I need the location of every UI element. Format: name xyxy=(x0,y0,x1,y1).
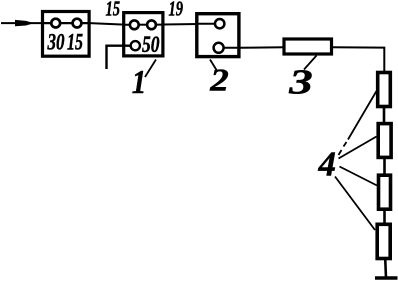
terminal circle xyxy=(130,20,139,29)
terminal circle xyxy=(214,43,224,53)
wire: block 2 to resistor 3 xyxy=(240,46,284,48)
box outline (block 2) xyxy=(197,14,239,57)
leader to resistor 4c xyxy=(340,167,378,186)
terminal circle xyxy=(51,19,60,28)
block 1 (contact box, value 50) xyxy=(124,13,163,58)
leader to resistor 4d xyxy=(335,177,375,231)
leader line to block 2 xyxy=(210,60,217,71)
terminal circle xyxy=(147,20,156,29)
svg-text:2: 2 xyxy=(209,63,229,98)
internal wire through contacts xyxy=(43,22,90,24)
svg-text:15: 15 xyxy=(67,30,83,55)
input block (contact box, values 30 15) xyxy=(43,12,91,57)
leader line to resistor 3 xyxy=(304,56,317,70)
svg-text:3: 3 xyxy=(288,63,313,102)
box outline (block 1) xyxy=(124,13,163,56)
resistor 4a xyxy=(378,73,391,107)
svg-text:1: 1 xyxy=(132,64,147,101)
wire: 4b to 4c xyxy=(383,156,386,175)
wire: block 1 to block 2 xyxy=(163,23,216,26)
wire: 4a to 4b xyxy=(383,106,386,123)
leader line to block 1 xyxy=(145,60,156,78)
wire: 4c to 4d xyxy=(383,209,386,224)
box outline (input block) xyxy=(43,12,90,57)
svg-text:4: 4 xyxy=(318,145,337,184)
terminal circle xyxy=(215,19,224,28)
ground xyxy=(375,276,398,280)
svg-text:50: 50 xyxy=(142,32,160,58)
wire: resistor 3 to resistor chain (corner) xyxy=(332,47,384,72)
resistor 3 xyxy=(284,39,332,54)
leader lines to resistors 4 (dashed fan) xyxy=(335,91,377,230)
svg-text:19: 19 xyxy=(169,0,184,21)
leader to resistor 4b xyxy=(339,137,377,159)
leader to resistor 4a (main segment) xyxy=(348,91,377,140)
resistor 4b xyxy=(378,124,391,158)
resistor 4d xyxy=(377,224,390,258)
internal wire to top contact xyxy=(197,23,220,25)
wire: 4d to ground xyxy=(384,258,387,278)
svg-text:30: 30 xyxy=(47,30,65,55)
internal wire through top contacts xyxy=(125,24,162,26)
stub lead from block 1 xyxy=(107,46,131,69)
input arrowhead xyxy=(15,20,34,26)
terminal circle xyxy=(73,19,82,28)
internal wire from bottom contact xyxy=(219,47,239,49)
block 2 (contact box) xyxy=(197,14,239,57)
leader to resistor 4a (dash segment) xyxy=(339,150,342,155)
terminal circle xyxy=(131,41,140,50)
leader to resistor 4a (dash segment) xyxy=(344,142,347,147)
resistor 4c xyxy=(379,175,391,209)
svg-text:15: 15 xyxy=(106,0,121,21)
wire: input lead xyxy=(1,22,43,24)
wire: input block to block 1 xyxy=(90,23,127,25)
